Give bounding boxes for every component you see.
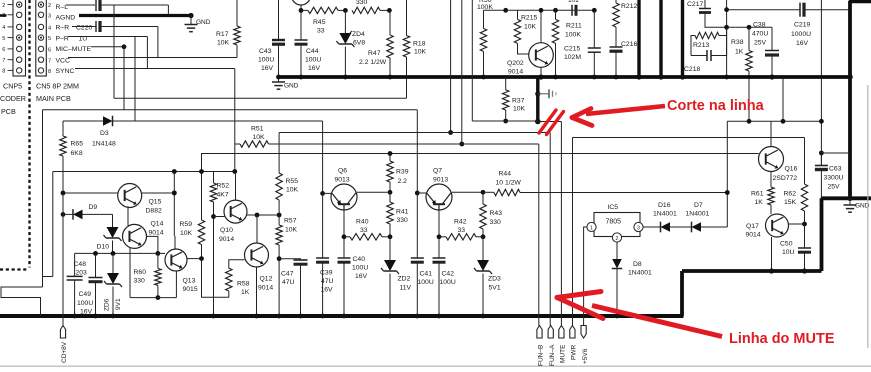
svg-text:C63: C63 (829, 166, 842, 173)
capacitor C47 47U (279, 259, 307, 319)
svg-text:16V: 16V (308, 65, 321, 72)
ground GND (bus) (272, 77, 299, 90)
svg-text:203: 203 (76, 270, 88, 277)
svg-text:D3: D3 (100, 130, 109, 137)
wire P-R branch down to D3 line (134, 37, 136, 122)
resistor R40 33 (344, 219, 390, 241)
capacitor C42 100U (433, 258, 456, 318)
wire AGND thick (0, 13, 194, 18)
svg-text:D8: D8 (633, 261, 642, 268)
svg-text:D16: D16 (658, 202, 671, 209)
svg-text:D10: D10 (97, 244, 110, 251)
page artifact lines (0, 85, 871, 366)
svg-text:7: 7 (48, 58, 51, 64)
wire base rail to Q16 (202, 151, 759, 171)
svg-text:1000U: 1000U (791, 31, 811, 38)
transistor Q7 9013 (426, 168, 452, 211)
svg-text:R55: R55 (286, 178, 299, 185)
svg-text:101: 101 (568, 0, 579, 4)
capacitor C44 (295, 5, 322, 79)
svg-text:8: 8 (2, 69, 5, 75)
zener ZD3 5V1 (474, 237, 501, 319)
wire PWR net (573, 138, 805, 326)
capacitor C220 (96, 21, 100, 32)
svg-text:2.2: 2.2 (398, 178, 408, 185)
wire R-L line (66, 5, 168, 15)
svg-text:Q10: Q10 (220, 227, 233, 234)
capacitor C219 1000U 16V (727, 3, 850, 47)
svg-text:6: 6 (48, 48, 51, 54)
svg-text:C44: C44 (306, 48, 319, 55)
svg-text:10K: 10K (513, 106, 526, 113)
svg-text:CODER: CODER (0, 94, 26, 103)
connector CN5 (36, 0, 79, 103)
svg-text:R60: R60 (134, 269, 147, 276)
wire right column x=821 (820, 0, 822, 166)
resistor R45 33 (299, 7, 346, 34)
svg-text:R42: R42 (454, 219, 467, 226)
resistor R215 10K (514, 10, 537, 54)
svg-text:GND: GND (196, 19, 211, 26)
capacitor C41 100U (411, 193, 434, 318)
svg-text:11V: 11V (400, 285, 412, 292)
svg-text:9013: 9013 (433, 177, 448, 184)
svg-text:330: 330 (134, 278, 146, 285)
resistor R37 10K (503, 77, 526, 123)
diode D7 1N4001 (686, 202, 728, 232)
svg-text:ZD3: ZD3 (488, 276, 501, 283)
capacitor C50 10U (780, 224, 811, 274)
svg-text:IC5: IC5 (608, 204, 619, 211)
transistor Q17 9014 (746, 214, 807, 274)
diode D10 (97, 227, 122, 253)
svg-text:47U: 47U (282, 279, 295, 286)
svg-text:102M: 102M (564, 54, 581, 61)
svg-text:Q7: Q7 (433, 168, 442, 175)
svg-text:Q15: Q15 (149, 199, 162, 206)
svg-text:D9: D9 (89, 204, 98, 211)
diode D9 (61, 204, 113, 227)
wire mute drive column x=727 (725, 121, 730, 227)
svg-text:6: 6 (2, 47, 5, 53)
capacitor C63 3300U 25V (815, 151, 850, 199)
svg-text:100U: 100U (418, 279, 434, 286)
capacitor C218 (684, 50, 727, 73)
svg-text:33: 33 (458, 227, 466, 234)
svg-text:R39: R39 (396, 169, 409, 176)
wire GND bus bottom (0, 314, 684, 318)
resistor R39 2.2 (387, 154, 409, 195)
svg-text:3300U: 3300U (824, 175, 844, 182)
wire Q6 base column (320, 121, 331, 196)
svg-text:R41: R41 (396, 209, 409, 216)
svg-text:R40: R40 (356, 219, 369, 226)
transistor (cut at top edge) (292, 0, 311, 5)
svg-text:Q14: Q14 (151, 221, 164, 228)
svg-text:C49: C49 (79, 291, 92, 298)
svg-text:1N4148: 1N4148 (92, 141, 116, 148)
capacitor C217 (687, 0, 727, 27)
svg-text:C219: C219 (794, 22, 810, 29)
svg-text:Q16: Q16 (785, 166, 798, 173)
dashed PCB boundary (0, 0, 30, 270)
node C217/C219 (724, 0, 729, 79)
capacitor C39 47U 16V (316, 193, 333, 318)
resistor R62 15K (784, 138, 808, 225)
svg-text:CD+8V: CD+8V (61, 341, 68, 363)
svg-text:ZD2: ZD2 (398, 276, 411, 283)
wire SYNC line (75, 69, 235, 144)
wire node 27 to R38/C38 (727, 25, 772, 30)
svg-text:FUN–A: FUN–A (549, 344, 556, 366)
svg-text:16V: 16V (261, 65, 274, 72)
capacitor C216 (610, 41, 638, 79)
transistor Q13 9015 (130, 236, 202, 298)
svg-text:R17: R17 (216, 31, 229, 38)
svg-text:10U: 10U (782, 249, 795, 256)
transistor Q12 9014 (245, 215, 274, 318)
svg-text:C42: C42 (442, 271, 455, 278)
svg-text:9013: 9013 (335, 177, 350, 184)
resistor R38 1K (731, 27, 752, 121)
transistor Q6 9013 (331, 168, 357, 211)
transistor Q16 2SD772 (759, 121, 798, 187)
ground GND (AGND) (185, 16, 211, 32)
thick GND right horizontal (821, 196, 871, 201)
resistor R18 10K (403, 0, 426, 98)
resistor 330 (top) (343, 0, 389, 14)
svg-text:9014: 9014 (149, 230, 164, 237)
svg-text:R43: R43 (490, 210, 503, 217)
svg-text:R61: R61 (751, 191, 764, 198)
svg-text:ZD6: ZD6 (104, 298, 111, 311)
svg-text:7805: 7805 (606, 219, 622, 226)
svg-text:4: 4 (2, 25, 5, 31)
svg-text:R52: R52 (217, 183, 230, 190)
svg-text:CN5 8P 2MM: CN5 8P 2MM (36, 82, 79, 91)
svg-text:47U: 47U (321, 278, 334, 285)
pin CD+8V (60, 326, 68, 364)
svg-text:4: 4 (48, 26, 51, 32)
resistor R58 1K (202, 259, 250, 298)
zener ZD4 6V8 (336, 10, 365, 79)
svg-text:PCB: PCB (1, 107, 16, 116)
svg-text:16V: 16V (321, 287, 334, 294)
svg-text:C47: C47 (281, 271, 294, 278)
thick +B right vertical (847, 1, 871, 199)
resistor R60 330 (134, 253, 162, 300)
IC 7805 IC5 (587, 204, 643, 242)
svg-text:P–R: P–R (56, 35, 69, 42)
wire +8V feed rail (75, 251, 161, 256)
svg-text:1N4001: 1N4001 (628, 270, 652, 277)
svg-text:R18: R18 (413, 41, 426, 48)
capacitor C40 100U 16V (338, 256, 369, 318)
svg-text:100U: 100U (305, 57, 321, 64)
resistor 100K (cut label, top) (477, 0, 506, 79)
ground GND (right) (844, 198, 870, 212)
wire FUN-B net / R51 rail (269, 0, 539, 326)
svg-text:C220: C220 (76, 25, 92, 32)
capacitor R-L coupling (cut at top) (96, 0, 100, 11)
resistor R41 330 (387, 192, 409, 239)
resistor R55 10K (276, 133, 299, 216)
svg-text:16V: 16V (796, 40, 809, 47)
svg-text:9015: 9015 (183, 286, 198, 293)
svg-text:33: 33 (360, 227, 368, 234)
svg-text:Q17: Q17 (746, 223, 759, 230)
diode D16 1N4001 (643, 202, 691, 232)
wire top-right link y=121 (727, 119, 824, 124)
svg-text:7: 7 (2, 58, 5, 64)
svg-text:+5V6: +5V6 (582, 348, 589, 364)
diode D3 1N4148 (63, 116, 323, 148)
svg-text:9014: 9014 (219, 236, 234, 243)
svg-text:3: 3 (637, 225, 640, 231)
svg-text:470U: 470U (752, 31, 768, 38)
svg-text:Q13: Q13 (183, 278, 196, 285)
svg-text:3: 3 (48, 13, 51, 19)
pin FUN-A (548, 326, 556, 367)
wire P-R line (68, 37, 147, 69)
svg-text:10K: 10K (524, 24, 537, 31)
svg-text:9014: 9014 (746, 232, 761, 239)
transistor Q14 9014 (123, 221, 164, 298)
svg-text:100K: 100K (565, 32, 581, 39)
svg-text:Linha do MUTE: Linha do MUTE (729, 331, 835, 347)
wire Q6 collector (357, 191, 390, 193)
svg-text:1N4001: 1N4001 (686, 211, 710, 218)
svg-text:GND: GND (284, 83, 299, 90)
capacitor C38 470U 25V (752, 22, 779, 80)
svg-text:8: 8 (48, 69, 51, 75)
wire R37 bottom link (472, 0, 538, 121)
svg-text:R38: R38 (731, 39, 744, 46)
wire GND bus (279, 75, 851, 79)
svg-text:10K: 10K (217, 40, 230, 47)
transistor Q10 9014 (214, 172, 282, 244)
svg-text:ZD4: ZD4 (352, 31, 365, 38)
svg-text:R58: R58 (237, 281, 250, 288)
thick supply line 3 (681, 0, 684, 77)
resistor R212 (613, 0, 638, 47)
svg-text:33: 33 (317, 28, 325, 35)
resistor R44 10 1/2W (483, 171, 727, 196)
svg-text:C48: C48 (74, 261, 87, 268)
wire MUTE pickup after cut (538, 122, 562, 326)
svg-text:Q12: Q12 (260, 276, 273, 283)
svg-text:C218: C218 (684, 66, 700, 73)
svg-text:C38: C38 (753, 22, 766, 29)
open connector symbol (right of stub) (538, 89, 556, 98)
wire bottom-left return (1, 277, 53, 317)
svg-text:R211: R211 (566, 23, 582, 30)
svg-text:D882: D882 (146, 208, 162, 215)
resistor R65 6K8 (60, 121, 83, 193)
wire collector rail y=171.5 (53, 169, 237, 276)
svg-text:MUTE: MUTE (560, 344, 567, 363)
svg-text:10K: 10K (180, 230, 193, 237)
resistor R43 330 (480, 192, 502, 239)
resistor R17 (216, 0, 240, 58)
svg-text:6K8: 6K8 (71, 150, 83, 157)
svg-text:R215: R215 (521, 15, 537, 22)
svg-text:Corte na linha: Corte na linha (667, 98, 765, 114)
thick GND step down (682, 198, 822, 316)
svg-text:C43: C43 (259, 48, 272, 55)
wire Q7 base column (415, 110, 427, 196)
svg-text:2: 2 (616, 236, 619, 242)
resistor R61 1K (751, 187, 774, 214)
svg-text:2: 2 (2, 3, 5, 9)
wire net-A (R-L to R18 bottom) (114, 5, 407, 98)
connector CNP5 (0, 0, 26, 116)
red arrow Corte na linha (572, 106, 665, 126)
svg-text:AGND: AGND (56, 15, 76, 22)
zener ZD6 9V1 (104, 253, 123, 318)
transistor Q202 9014 (507, 8, 553, 80)
junction dots (GND bus) (638, 76, 640, 78)
capacitor C48 203 (67, 253, 87, 318)
svg-text:R44: R44 (499, 171, 512, 178)
wire Q15 emitter to Q14 (127, 206, 129, 225)
svg-text:5: 5 (2, 36, 5, 42)
svg-text:10K: 10K (253, 134, 266, 141)
pin labels CN5 (56, 4, 93, 75)
svg-text:C50: C50 (780, 241, 793, 248)
svg-text:25V: 25V (754, 40, 767, 47)
wire top rail (Q202 cell) (503, 8, 594, 13)
resistor R51 10K (235, 126, 269, 172)
wire C38 branch below bus (782, 79, 784, 122)
svg-text:6V8: 6V8 (353, 40, 365, 47)
resistor R211 100K (552, 8, 582, 80)
svg-text:10K: 10K (286, 187, 299, 194)
pin PWR (570, 326, 578, 361)
svg-text:R212: R212 (621, 3, 637, 10)
svg-text:10K: 10K (414, 49, 427, 56)
red arrow Linha do MUTE (557, 292, 722, 337)
wire Q15 collector to Q13 (172, 172, 177, 237)
pin FUN-B (537, 326, 545, 367)
svg-text:16V: 16V (355, 273, 368, 280)
capacitor C43 (258, 0, 285, 79)
svg-text:16V: 16V (80, 309, 93, 316)
wire CD+8V column (62, 193, 64, 326)
wire IC5 pin1 to +5V6 (584, 227, 587, 326)
svg-text:R57: R57 (284, 218, 297, 225)
resistor R52 4K7 (210, 172, 229, 319)
pin +5V6 (581, 326, 589, 365)
thick supply line 2 (659, 0, 662, 77)
svg-text:100U: 100U (258, 57, 274, 64)
pin MUTE (559, 326, 567, 364)
svg-text:9014: 9014 (258, 285, 273, 292)
svg-text:330: 330 (356, 0, 368, 6)
capacitor C49 100U 16V (77, 253, 103, 318)
svg-text:1K: 1K (241, 289, 250, 296)
svg-text:R51: R51 (251, 126, 264, 133)
svg-text:330: 330 (490, 219, 502, 226)
svg-text:Q202: Q202 (507, 60, 524, 67)
svg-text:4K7: 4K7 (217, 192, 229, 199)
svg-text:MIC–MUTE: MIC–MUTE (56, 46, 92, 53)
red cut marks on MUTE line (539, 110, 564, 135)
svg-text:SYNC: SYNC (56, 68, 75, 75)
svg-text:C40: C40 (353, 256, 366, 263)
svg-text:R47: R47 (368, 50, 381, 57)
resistor R57 10K (276, 215, 298, 318)
transistor Q15 D882 (61, 184, 177, 215)
svg-text:100U: 100U (77, 300, 93, 307)
svg-text:15K: 15K (784, 199, 797, 206)
svg-text:Q6: Q6 (338, 168, 347, 175)
svg-text:9014: 9014 (508, 69, 523, 76)
svg-text:MAIN PCB: MAIN PCB (36, 94, 71, 103)
svg-text:9V1: 9V1 (115, 298, 122, 310)
wire Q7 collector (452, 190, 485, 195)
svg-text:CNP5: CNP5 (3, 82, 22, 91)
svg-text:2: 2 (48, 3, 51, 9)
svg-text:R–R: R–R (56, 25, 70, 32)
svg-text:R62: R62 (784, 191, 797, 198)
thick supply line 1 (637, 0, 640, 77)
resistor R59 10K (180, 172, 205, 262)
svg-text:5V1: 5V1 (489, 285, 501, 292)
svg-text:VCC: VCC (56, 57, 70, 64)
svg-text:C216: C216 (621, 41, 637, 48)
wire net-B (MIC-MUTE to Q7 base) (43, 110, 418, 287)
svg-text:R37: R37 (512, 98, 525, 105)
zener ZD2 11V (381, 237, 412, 319)
svg-text:1K: 1K (735, 49, 744, 56)
svg-text:FUN–B: FUN–B (538, 345, 545, 366)
resistor R213 (691, 27, 727, 55)
svg-text:25V: 25V (828, 184, 841, 191)
thick stub from bus (cut line) (535, 77, 541, 124)
wire Q7 emitter column (437, 210, 442, 258)
svg-text:10 1/2W: 10 1/2W (496, 180, 522, 187)
svg-text:C215: C215 (564, 46, 580, 53)
wire FUN-A net (279, 0, 550, 326)
capacitor C215 102M (564, 8, 601, 80)
svg-text:2SD772: 2SD772 (773, 175, 798, 182)
diode D8 1N4001 (612, 242, 652, 318)
svg-text:C217: C217 (687, 1, 703, 8)
svg-text:2.2 1/2W: 2.2 1/2W (359, 59, 387, 66)
svg-text:5: 5 (48, 36, 51, 42)
svg-text:C41: C41 (420, 271, 433, 278)
wire VCC line (68, 57, 237, 59)
svg-text:10K: 10K (285, 227, 298, 234)
svg-text:100U: 100U (352, 265, 368, 272)
svg-text:R56: R56 (479, 0, 492, 4)
svg-text:100U: 100U (440, 279, 456, 286)
svg-text:R45: R45 (313, 19, 326, 26)
wire MIC-MUTE line (91, 44, 126, 109)
resistor R47 2.2 1/2W (359, 8, 393, 79)
svg-text:PWR: PWR (571, 345, 578, 360)
svg-text:1N4001: 1N4001 (653, 211, 677, 218)
capacitor 1U coupling (label cut) (568, 0, 579, 16)
wire Q6 emitter column (342, 210, 347, 258)
svg-text:D7: D7 (694, 202, 703, 209)
svg-text:1K: 1K (755, 199, 764, 206)
wire R-R line (72, 27, 158, 58)
svg-text:R65: R65 (71, 141, 84, 148)
svg-text:330: 330 (397, 217, 409, 224)
resistor R42 33 (439, 219, 483, 241)
